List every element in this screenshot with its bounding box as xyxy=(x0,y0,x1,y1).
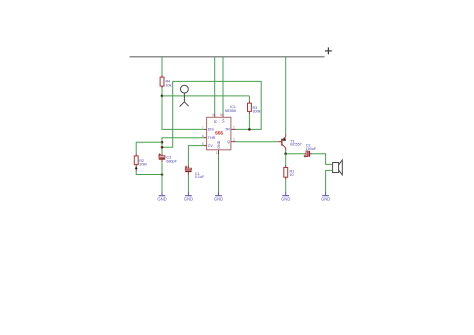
node R2 top junction xyxy=(161,141,164,144)
svg-text:1: 1 xyxy=(216,151,218,155)
svg-text:680pF: 680pF xyxy=(166,159,177,163)
wire touch node to R3 top xyxy=(162,96,249,101)
wire node to R1 xyxy=(285,154,287,165)
svg-text:GND: GND xyxy=(321,196,330,201)
resistor R1 10 xyxy=(284,165,294,180)
resistor R3 300k xyxy=(248,101,261,114)
wire THR/TR loop xyxy=(162,81,261,147)
ground GND5 xyxy=(321,192,330,201)
svg-text:Q: Q xyxy=(227,140,230,144)
wire C3 to GND xyxy=(161,162,163,192)
wire speaker to GND xyxy=(326,170,333,192)
wire rail to R4 xyxy=(161,57,163,75)
capacitor C3 680pF xyxy=(159,153,178,163)
ground GND4 xyxy=(281,192,290,201)
svg-text:CV: CV xyxy=(208,144,214,148)
node touch junction xyxy=(161,95,164,98)
svg-text:THR: THR xyxy=(208,136,216,140)
capacitor C1 0.1uF xyxy=(185,166,205,180)
svg-text:10k: 10k xyxy=(166,83,172,87)
svg-text:GND: GND xyxy=(217,140,221,148)
svg-text:NE555: NE555 xyxy=(225,109,236,113)
svg-text:5: 5 xyxy=(202,142,204,146)
svg-text:3: 3 xyxy=(233,138,235,142)
wire rail to transistor emitter xyxy=(285,57,287,135)
node collector junction xyxy=(284,153,287,156)
svg-text:DIS: DIS xyxy=(208,128,215,132)
svg-text:7: 7 xyxy=(202,126,204,130)
wire rail to pin 4 xyxy=(214,57,216,114)
ground GND2 xyxy=(184,192,193,201)
wire touch node down to DIS xyxy=(162,96,204,129)
node R2 bottom junction xyxy=(161,173,164,176)
wire node to C2 xyxy=(286,153,304,155)
svg-text:555: 555 xyxy=(215,131,223,137)
svg-text:2: 2 xyxy=(233,126,235,130)
capacitor C2 100uF xyxy=(304,144,317,158)
svg-text:8: 8 xyxy=(220,113,222,117)
wire R3 bottom to TR line xyxy=(248,114,250,129)
human touch symbol xyxy=(180,85,189,106)
IC IC1 NE555 555 timer xyxy=(202,105,236,155)
junction marker below R2 xyxy=(135,167,138,170)
svg-text:BC557: BC557 xyxy=(290,143,301,147)
wire collector to node xyxy=(285,151,287,154)
ground GND3 xyxy=(214,192,223,201)
svg-text:V+: V+ xyxy=(222,118,226,123)
transistor T1 BC557 PNP xyxy=(278,134,302,150)
speaker LS1 xyxy=(333,160,343,175)
svg-text:GND: GND xyxy=(157,196,166,201)
svg-text:4: 4 xyxy=(212,113,214,117)
wire C1 to GND xyxy=(187,175,189,192)
resistor R2 20M xyxy=(134,154,146,172)
node R3/TR junction xyxy=(248,128,251,131)
plus terminal marker xyxy=(325,47,332,54)
svg-text:6: 6 xyxy=(202,134,204,138)
ground GND1 xyxy=(157,192,166,201)
svg-text:20M: 20M xyxy=(139,162,146,166)
svg-text:10: 10 xyxy=(290,173,294,177)
wire rail to pin 8 xyxy=(222,57,224,114)
wire THR to C3 column xyxy=(162,138,204,154)
supply rail V+ xyxy=(130,56,325,58)
wire CV to C1 xyxy=(188,146,203,166)
wire R4 to touch node xyxy=(161,88,163,96)
svg-text:TR: TR xyxy=(225,128,230,132)
svg-text:GND: GND xyxy=(214,196,223,201)
svg-text:100uF: 100uF xyxy=(306,147,317,151)
wire C2 to speaker xyxy=(312,154,332,165)
svg-text:0.1uF: 0.1uF xyxy=(195,175,205,179)
wire R1 to GND xyxy=(285,180,287,192)
wire 555 GND pin to GND xyxy=(218,155,220,193)
svg-text:R: R xyxy=(213,120,217,123)
svg-text:300k: 300k xyxy=(253,109,261,113)
resistor R4 10k xyxy=(160,75,172,88)
wire Q output to transistor base xyxy=(236,141,278,143)
svg-text:GND: GND xyxy=(184,196,193,201)
svg-text:GND: GND xyxy=(281,196,290,201)
node loop junction xyxy=(161,146,164,149)
wire to R2 xyxy=(136,142,162,153)
wire R2 bottom to C3 column xyxy=(136,171,162,175)
